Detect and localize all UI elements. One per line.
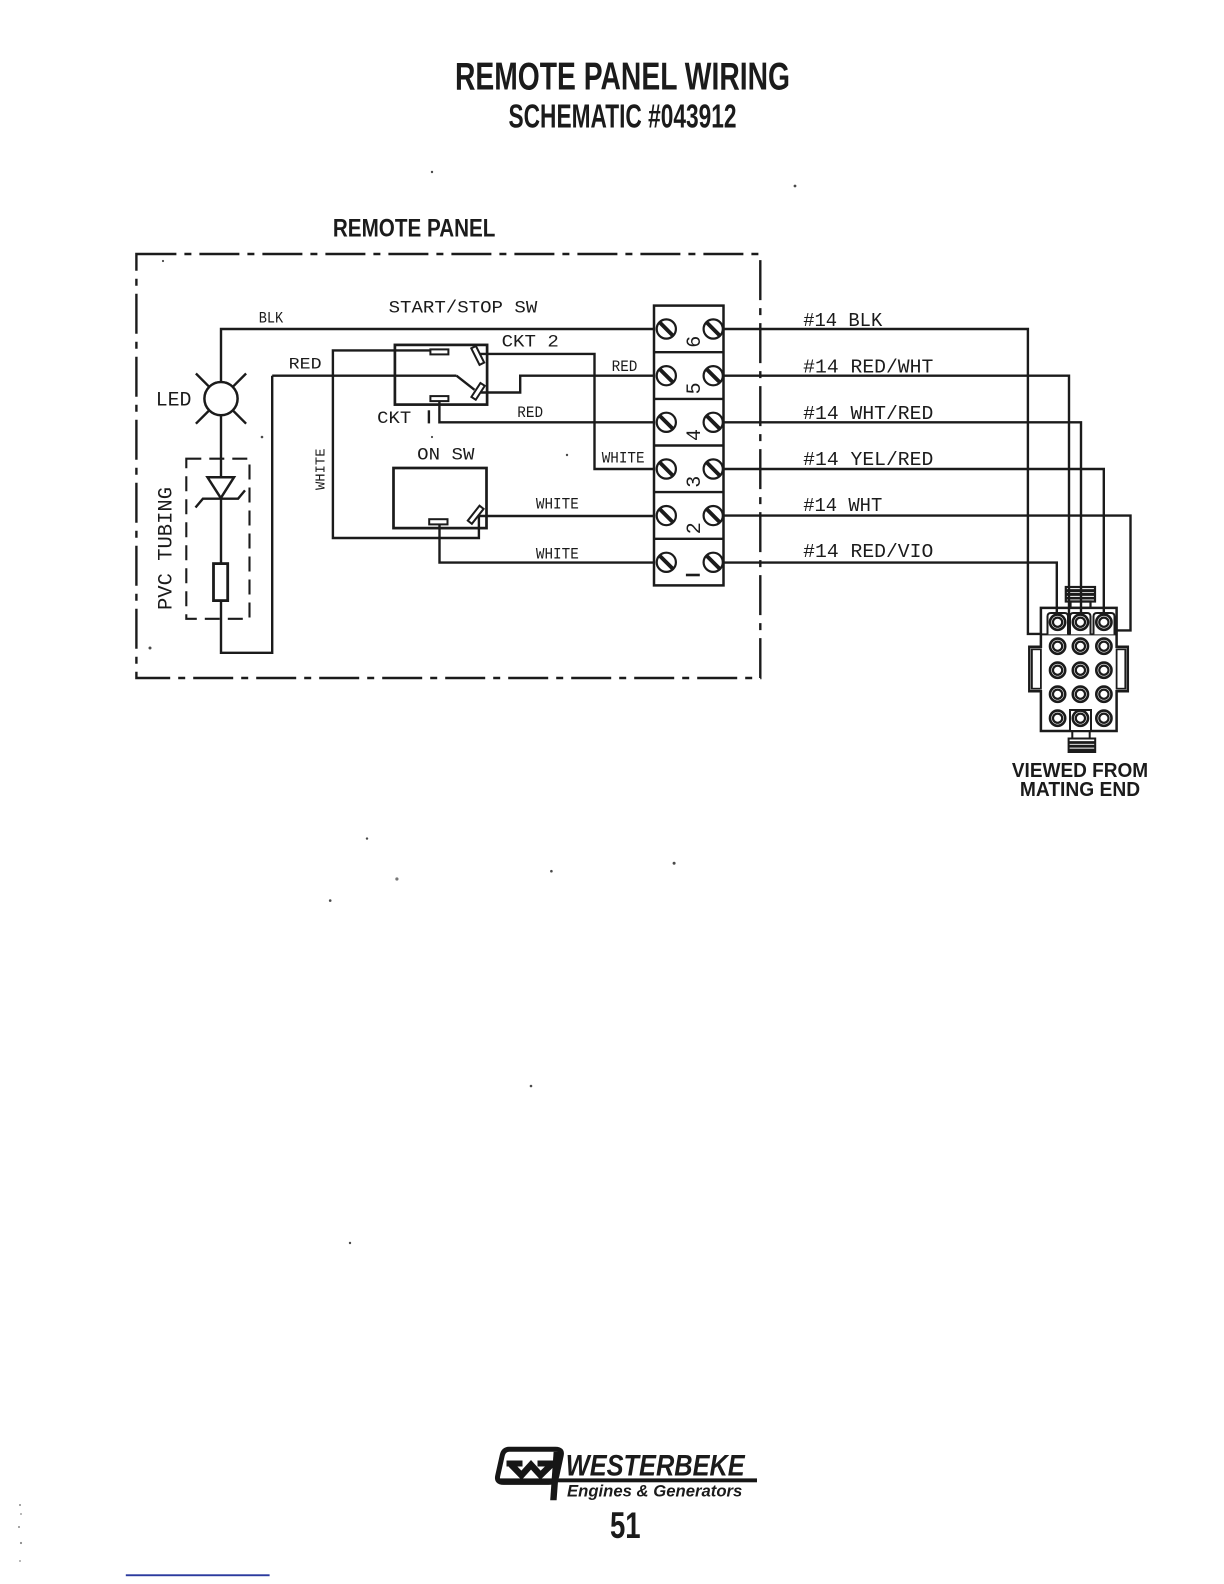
wire ON lever to terminal 2 (WHITE) (479, 515, 654, 517)
connector cup pin A1 (1048, 613, 1069, 634)
blue pen line bottom left (126, 1574, 270, 1576)
svg-text:51: 51 (610, 1505, 641, 1546)
wire RED from loop to start/stop pole (272, 375, 456, 377)
svg-text:6: 6 (684, 336, 707, 348)
wire ON contact to terminal 1 (WHITE) (440, 524, 655, 562)
svg-text:RED: RED (289, 355, 322, 373)
connector pin C1 (1050, 663, 1065, 678)
svg-text:#14 WHT: #14 WHT (803, 495, 882, 517)
svg-text:RED: RED (612, 358, 638, 376)
LED ray lower-right (233, 410, 246, 423)
terminal cell divider 3/2 (654, 491, 724, 493)
ON switch contact (429, 519, 447, 524)
remote panel dash-dot border (136, 254, 760, 678)
Westerbeke logo underline (498, 1478, 757, 1482)
connector pin A2 (1073, 615, 1088, 630)
ON switch lever (468, 506, 484, 524)
screw terminal 6 L (657, 319, 676, 338)
connector pin E1 (1050, 711, 1065, 726)
screw terminal 2 L (657, 506, 676, 525)
svg-text:#14 RED/WHT: #14 RED/WHT (803, 357, 933, 379)
svg-text:START/STOP SW: START/STOP SW (389, 299, 538, 319)
Westerbeke logo separator bar (550, 1452, 560, 1500)
LED ray upper-left (196, 374, 209, 387)
wire #14 RED/VIO (724, 563, 1057, 615)
svg-text:#14 WHT/RED: #14 WHT/RED (803, 403, 933, 425)
connector pin D2 (1073, 687, 1088, 702)
connector pin D1 (1050, 687, 1065, 702)
PVC tubing dashed box (186, 459, 249, 619)
start/stop switch box (395, 345, 487, 405)
wire lever to terminal 5 (RED) (481, 376, 654, 393)
svg-text:PVC TUBING: PVC TUBING (156, 487, 179, 610)
connector pin B1 (1050, 639, 1065, 654)
screw terminal 3 L (657, 459, 676, 478)
connector cup pin A3 (1094, 613, 1115, 634)
terminal block outline (654, 306, 724, 586)
svg-text:WHITE: WHITE (536, 545, 579, 563)
LED ray lower-left (196, 410, 209, 423)
svg-text:#14 YEL/RED: #14 YEL/RED (803, 449, 933, 471)
terminal number 1 (686, 574, 700, 577)
svg-text:CKT 2: CKT 2 (502, 332, 559, 352)
connector right tab inner line (1117, 649, 1126, 688)
wire resistor to bottom loop (221, 376, 272, 653)
terminal cell divider 2/1 (654, 538, 724, 540)
svg-text:CKT: CKT (377, 409, 411, 429)
connector bottom middle notch (1070, 710, 1091, 731)
wire #14 WHT/RED (724, 422, 1082, 614)
zener diode D1 triangle (208, 477, 235, 498)
svg-text:WHITE: WHITE (602, 450, 645, 468)
scan noise left edge bottom (18, 1504, 22, 1562)
screw terminal 4 R (704, 413, 723, 432)
connector pin C3 (1096, 663, 1111, 678)
connector bottom stem (1069, 731, 1096, 752)
screw terminal 5 L (657, 366, 676, 385)
label CKT 1 (377, 409, 429, 429)
connector cup pin A2 (1070, 613, 1091, 634)
screw terminal 5 R (704, 366, 723, 385)
connector pin A1 (1050, 615, 1065, 630)
svg-text:WESTERBEKE: WESTERBEKE (566, 1449, 746, 1482)
connector pin B3 (1096, 639, 1111, 654)
Westerbeke logo W mark (507, 1464, 555, 1476)
connector internal shelf line (1041, 633, 1117, 635)
svg-text:ON SW: ON SW (417, 445, 475, 465)
scan specks (noise dots) (149, 171, 797, 1244)
wire zener to resistor (220, 499, 222, 564)
wire CKT2 lever to terminal 3 (WHITE) (481, 354, 655, 469)
connector pin E3 (1096, 711, 1111, 726)
LED circle (204, 382, 237, 415)
wire WHITE common: ON SW to start/stop top contact (333, 350, 479, 538)
connector pin D3 (1096, 687, 1111, 702)
connector top cable entry ribbed (1066, 587, 1095, 608)
svg-text:LED: LED (156, 389, 192, 412)
svg-text:Engines & Generators: Engines & Generators (567, 1483, 742, 1501)
resistor R1 (214, 564, 228, 601)
screw terminal 4 L (657, 413, 676, 432)
svg-text:REMOTE PANEL WIRING: REMOTE PANEL WIRING (455, 56, 790, 99)
wire #14 BLK (724, 329, 1041, 634)
connector pin A3 (1096, 615, 1111, 630)
svg-text:SCHEMATIC #043912: SCHEMATIC #043912 (509, 98, 737, 135)
connector pin C2 (1073, 663, 1088, 678)
screw terminal 2 R (704, 506, 723, 525)
svg-text:WHITE: WHITE (313, 449, 329, 491)
wire BLK from LED to terminal 6 (221, 329, 654, 382)
start/stop top contact (430, 349, 448, 354)
LED ray upper-right (233, 374, 246, 387)
start/stop top lever CKT2 (471, 346, 484, 365)
screw terminal 3 R (704, 459, 723, 478)
zener diode D1 cathode bar with hooks (196, 490, 246, 507)
svg-text:3: 3 (684, 476, 707, 488)
wire #14 RED/WHT (724, 376, 1070, 625)
screw terminal 6 R (704, 319, 723, 338)
connector pin E2 (1073, 711, 1088, 726)
terminal cell divider 4/3 (654, 444, 724, 446)
svg-text:4: 4 (684, 429, 707, 441)
svg-text:#14 RED/VIO: #14 RED/VIO (803, 541, 933, 563)
Westerbeke logo emblem box (497, 1449, 561, 1482)
wire #14 WHT (724, 516, 1131, 631)
connector pin B2 (1073, 639, 1088, 654)
svg-text:MATING END: MATING END (1020, 778, 1140, 801)
svg-text:#14 BLK: #14 BLK (803, 310, 883, 332)
svg-text:WHITE: WHITE (536, 495, 579, 513)
svg-text:BLK: BLK (259, 310, 284, 328)
screw terminal 1 R (704, 553, 723, 572)
terminal cell divider 5/4 (654, 398, 724, 400)
ON switch box (394, 468, 487, 528)
connector left tab inner line (1032, 649, 1041, 688)
svg-text:5: 5 (684, 382, 707, 394)
connector housing outline (1029, 608, 1128, 731)
wire bottom contact to terminal 4 (RED) (439, 401, 654, 422)
svg-text:RED: RED (517, 404, 543, 422)
terminal cell divider 6/5 (654, 351, 724, 353)
start/stop pole diagonal (457, 376, 475, 390)
svg-text:2: 2 (684, 522, 707, 534)
start/stop lower lever CKT1 (471, 383, 484, 400)
wire LED to zener (220, 415, 222, 477)
wire #14 YEL/RED (724, 469, 1104, 615)
screw terminal 1 L (657, 553, 676, 572)
svg-text:REMOTE PANEL: REMOTE PANEL (333, 215, 496, 243)
start/stop bottom contact (430, 396, 448, 401)
